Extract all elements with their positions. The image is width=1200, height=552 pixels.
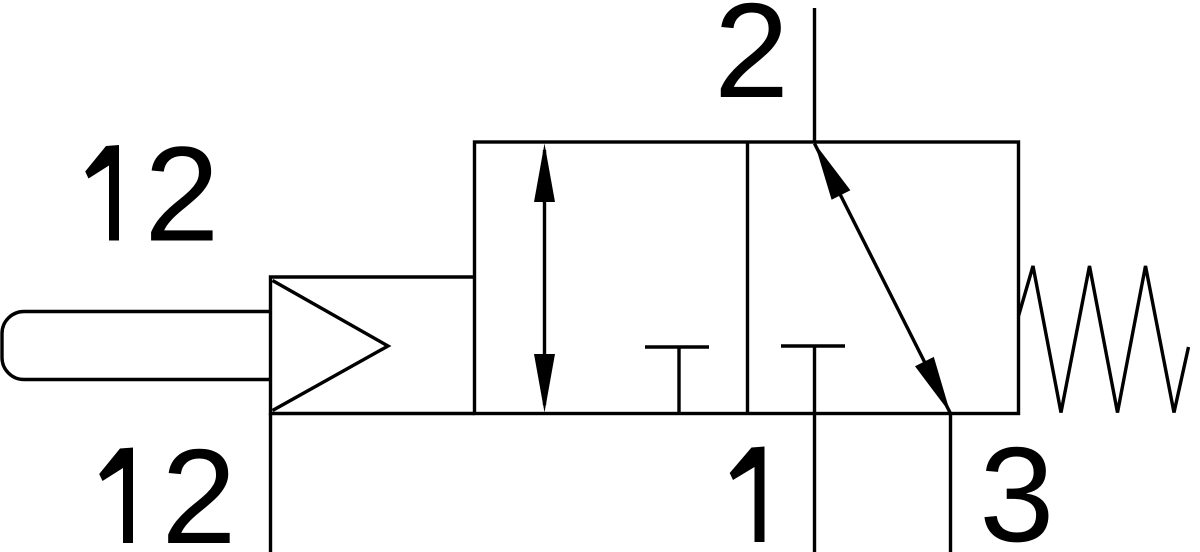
svg-text:2: 2	[144, 119, 219, 270]
svg-text:3: 3	[979, 419, 1054, 552]
svg-text:2: 2	[161, 421, 236, 552]
svg-text:2: 2	[714, 0, 789, 126]
